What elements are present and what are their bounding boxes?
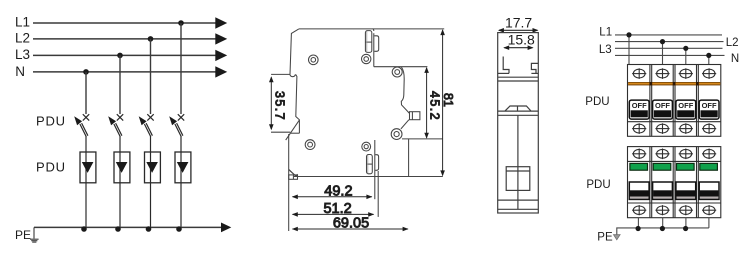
drop L1 xyxy=(628,35,630,65)
node N label xyxy=(15,64,25,79)
OFF window module 1 xyxy=(629,100,649,119)
breaker side outline xyxy=(286,29,445,231)
wire PE down xyxy=(33,227,35,238)
PDU label upper xyxy=(36,114,66,129)
node L2 label xyxy=(15,31,30,46)
wire L1 bus xyxy=(33,22,216,24)
green indicator module 4 xyxy=(700,163,718,170)
node N label xyxy=(731,53,739,65)
svg-text:N: N xyxy=(731,53,739,65)
svg-text:81: 81 xyxy=(441,93,455,107)
dimension 69.05 xyxy=(292,216,409,232)
branch 4 (L1) wire drop xyxy=(180,23,182,114)
PDU label lower xyxy=(36,160,66,175)
arrow PE xyxy=(221,223,231,233)
dimension 45.2 xyxy=(424,67,441,139)
PDU label top xyxy=(585,96,609,108)
drop M1 xyxy=(637,218,639,228)
arrow L1 xyxy=(215,17,227,28)
node L2 label xyxy=(726,37,739,49)
OFF window module 3 xyxy=(676,100,696,119)
green indicator module 2 xyxy=(653,163,671,170)
arrester A4 xyxy=(175,152,191,227)
drop M4 xyxy=(708,218,710,228)
svg-text:PDU: PDU xyxy=(36,160,66,175)
unit body xyxy=(628,65,721,137)
drop N xyxy=(708,55,710,64)
dimension 17.7 xyxy=(498,15,539,33)
dimension 81 xyxy=(440,29,455,176)
arrow N xyxy=(215,66,227,77)
svg-text:49.2: 49.2 xyxy=(324,184,352,200)
arrester A3 xyxy=(145,152,161,227)
svg-text:51.2: 51.2 xyxy=(323,201,351,217)
screw terminal B4 bottom unit xyxy=(702,205,716,215)
rivet circle bottom-mid xyxy=(362,142,371,151)
svg-text:OFF: OFF xyxy=(655,101,670,110)
breaker front outline xyxy=(498,33,539,213)
screw terminal T1 bottom unit xyxy=(632,149,646,160)
drop L2 xyxy=(662,42,664,65)
OFF window module 4 xyxy=(699,100,719,119)
wire L2 bus xyxy=(33,38,216,40)
junction dot N xyxy=(706,53,711,58)
screw terminal B4 top unit xyxy=(702,123,716,134)
arrow L3 xyxy=(215,50,227,61)
svg-text:OFF: OFF xyxy=(632,101,647,110)
PE label right xyxy=(597,231,613,243)
OFF window module 2 xyxy=(653,100,673,119)
node L3 label xyxy=(15,47,30,62)
switch S1 xyxy=(74,114,89,152)
wire L1 feed xyxy=(615,34,722,36)
wire N bus xyxy=(33,71,216,73)
ground arrow xyxy=(614,235,621,240)
junction L1 xyxy=(178,20,184,26)
svg-text:L3: L3 xyxy=(599,44,612,56)
branch 2 (L3) wire drop xyxy=(119,55,121,114)
junction PE3 xyxy=(146,226,152,232)
terminal block top xyxy=(365,31,378,53)
switch S2 xyxy=(108,114,123,152)
junction N xyxy=(83,69,89,75)
green indicator module 3 xyxy=(677,163,695,170)
hook circle top-right xyxy=(392,67,402,77)
extension line 35.7 top xyxy=(271,73,290,75)
drop M3 xyxy=(685,218,687,228)
screw terminal T4 top xyxy=(702,68,716,79)
screw terminal T2 bottom unit xyxy=(655,149,669,160)
svg-text:L1: L1 xyxy=(599,27,612,39)
svg-text:PE: PE xyxy=(15,228,31,242)
svg-text:OFF: OFF xyxy=(702,101,717,110)
dimension 35.7 xyxy=(269,76,286,130)
orange indicator band xyxy=(628,82,720,85)
svg-text:L3: L3 xyxy=(15,47,30,62)
status window module 3 xyxy=(676,182,696,199)
svg-text:45.2: 45.2 xyxy=(427,91,441,121)
svg-text:OFF: OFF xyxy=(678,101,693,110)
PE label xyxy=(15,228,31,242)
svg-text:69.05: 69.05 xyxy=(333,216,369,232)
wire L2 feed xyxy=(615,41,724,43)
junction dot L1 xyxy=(626,32,631,37)
dimension 49.2 xyxy=(292,184,373,200)
extension line 49.2 xyxy=(374,140,376,199)
wire L3 bus xyxy=(33,54,216,56)
screw terminal B1 top unit xyxy=(632,123,646,134)
svg-text:PDU: PDU xyxy=(585,96,609,108)
svg-text:N: N xyxy=(15,64,25,79)
svg-text:L2: L2 xyxy=(726,37,739,49)
wire PE bus xyxy=(34,226,221,228)
svg-text:PDU: PDU xyxy=(36,114,66,129)
screw terminal B2 top unit xyxy=(655,123,669,134)
switch S4 xyxy=(169,114,184,152)
junction dot PE2 xyxy=(660,226,665,231)
junction dot L2 xyxy=(660,39,665,44)
screw terminal T1 top xyxy=(632,68,646,79)
branch 1 (N) wire drop xyxy=(85,72,87,114)
wire PE collector xyxy=(617,228,709,235)
arrester A1 xyxy=(80,152,96,227)
dimension 15.8 xyxy=(503,31,535,50)
screw terminal T3 top xyxy=(679,68,693,79)
junction L3 xyxy=(117,53,123,59)
branch 3 (L2) wire drop xyxy=(150,39,152,114)
svg-text:17.7: 17.7 xyxy=(505,15,532,31)
svg-text:L1: L1 xyxy=(15,14,30,29)
junction PE2 xyxy=(115,226,121,232)
SPD unit top (disconnector) xyxy=(628,65,721,137)
svg-text:PDU: PDU xyxy=(586,179,610,191)
screw terminal B1 bottom unit xyxy=(632,205,646,215)
status window module 1 xyxy=(629,182,649,199)
green indicator module 1 xyxy=(630,163,648,170)
rivet circle bottom-left xyxy=(305,140,315,150)
ground symbol xyxy=(30,239,39,242)
terminal block bottom xyxy=(367,155,379,174)
node L3 label xyxy=(599,44,612,56)
PDU label bottom xyxy=(586,179,610,191)
SPD unit bottom (arrester) xyxy=(628,147,721,218)
rivet circle top-left xyxy=(309,55,319,65)
extension line 35.7 bottom xyxy=(271,131,290,133)
svg-text:15.8: 15.8 xyxy=(508,31,535,47)
screw terminal T3 bottom unit xyxy=(679,149,693,160)
node L1 label xyxy=(599,27,612,39)
PE wiring bottom right xyxy=(614,218,709,240)
screw terminal B3 top unit xyxy=(679,123,693,134)
screw terminal B3 bottom unit xyxy=(679,205,693,215)
svg-text:PE: PE xyxy=(597,231,613,243)
junction dot L3 xyxy=(683,46,688,51)
drop M2 xyxy=(662,218,664,228)
node L1 label xyxy=(15,14,30,29)
svg-text:35.7: 35.7 xyxy=(272,91,286,121)
junction dot PE3 xyxy=(683,226,688,231)
wire N feed xyxy=(615,54,725,56)
screw terminal T2 top xyxy=(655,68,669,79)
extension line 51.2 xyxy=(377,171,379,217)
unit body xyxy=(628,147,721,218)
arrester A2 xyxy=(114,152,130,227)
wire L3 feed xyxy=(615,47,723,49)
status window module 2 xyxy=(653,182,673,199)
svg-text:L2: L2 xyxy=(15,31,30,46)
junction L2 xyxy=(148,36,154,42)
dimension 51.2 xyxy=(292,201,374,217)
junction PE1 xyxy=(81,226,87,232)
junction dot PE1 xyxy=(636,226,641,231)
screw terminal B2 bottom unit xyxy=(655,205,669,215)
screw terminal T4 bottom unit xyxy=(702,149,716,160)
arrow L2 xyxy=(215,33,227,44)
junction PE4 xyxy=(176,226,182,232)
drop L3 xyxy=(685,48,687,64)
hook circle bottom-right xyxy=(391,129,402,140)
switch S3 xyxy=(139,114,154,152)
rivet circle top-mid xyxy=(362,54,371,63)
status window module 4 xyxy=(699,182,719,199)
